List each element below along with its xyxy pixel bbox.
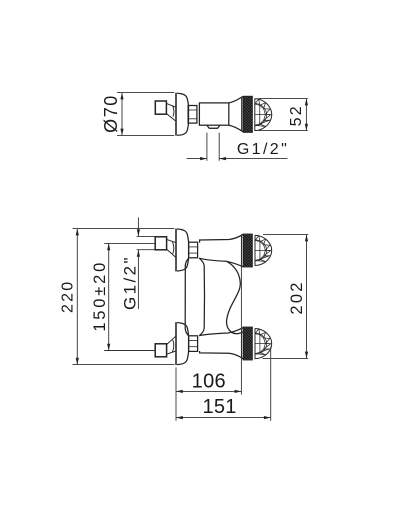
- svg-text:151: 151: [202, 396, 236, 418]
- svg-text:52: 52: [288, 104, 305, 126]
- svg-text:Ø70: Ø70: [101, 94, 121, 133]
- svg-text:220: 220: [60, 280, 77, 313]
- svg-text:G1/2": G1/2": [237, 141, 289, 158]
- svg-text:150±20: 150±20: [91, 260, 109, 332]
- svg-text:202: 202: [288, 280, 306, 314]
- svg-text:106: 106: [192, 370, 226, 392]
- svg-text:G1/2": G1/2": [120, 255, 139, 310]
